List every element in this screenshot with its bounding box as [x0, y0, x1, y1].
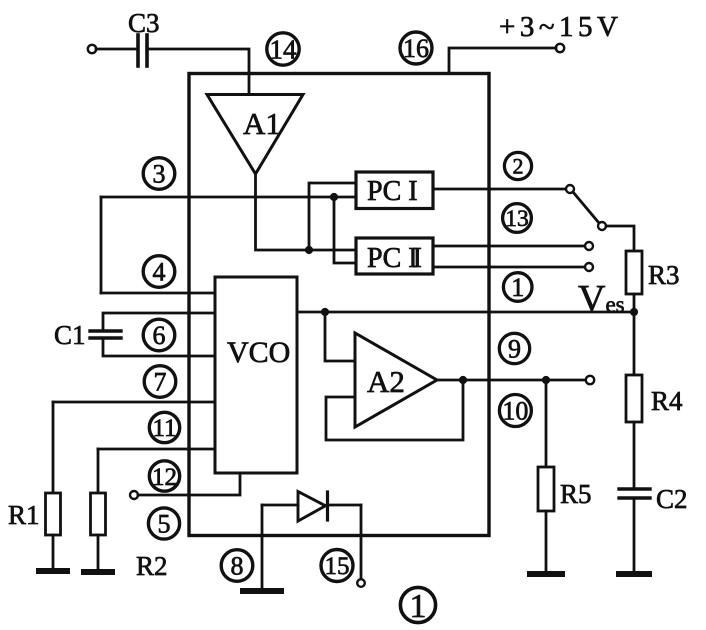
ground at R5 [530, 571, 562, 577]
wire down to R1 [52, 402, 55, 493]
wire pin 4 [101, 292, 215, 295]
pin label 15 [321, 550, 353, 582]
svg-text:9: 9 [508, 335, 521, 364]
wire diode anode [262, 504, 298, 507]
pin label 10 [499, 395, 531, 427]
switch contact a [566, 185, 574, 193]
wire R5 to ground [545, 511, 548, 574]
svg-text:3: 3 [153, 160, 166, 189]
wire A2 output [437, 379, 586, 382]
svg-text:5: 5 [158, 510, 171, 539]
svg-text:11: 11 [152, 415, 176, 442]
wire pin 7 [53, 401, 215, 404]
wire A1 output down [256, 174, 357, 250]
wire branch to PC II lower input [334, 197, 356, 263]
pin label 2 [504, 152, 531, 179]
pin label 5 [148, 508, 179, 539]
svg-text:7: 7 [154, 368, 167, 397]
junction at A1 output branch [305, 246, 313, 254]
supply terminal +3~15V [556, 44, 564, 52]
pin label 13 [503, 204, 532, 233]
wire C1 bottom leg [103, 338, 215, 356]
svg-text:PC I: PC I [367, 176, 418, 207]
svg-text:13: 13 [505, 206, 529, 232]
wire A2 feedback loop [326, 380, 463, 440]
svg-text:8: 8 [231, 552, 244, 581]
pin label 9 [499, 333, 529, 363]
wire C3 to pin14 corner [147, 49, 249, 94]
wire switch to R3 [606, 226, 634, 251]
wire PC II output b pin 13 [433, 266, 585, 269]
resistor R1 [46, 493, 61, 535]
wire pin 15 leg [360, 505, 363, 580]
junction VCO out [321, 308, 329, 316]
IC outline [189, 74, 489, 536]
wire pin 3 [101, 196, 356, 199]
resistor R2 [91, 493, 106, 535]
svg-text:PC II: PC II [367, 243, 422, 274]
figure label 1 [400, 587, 435, 622]
svg-text:Ves: Ves [578, 278, 625, 320]
svg-text:R5: R5 [560, 479, 592, 509]
junction pin3 branch [330, 193, 338, 201]
ground at C2 [619, 571, 649, 577]
capacitor C3 [136, 35, 140, 66]
svg-text:15: 15 [325, 553, 350, 580]
capacitor C2 [619, 487, 650, 490]
wire pin 8 leg [261, 505, 264, 588]
pin label 4 [143, 256, 175, 288]
svg-text:VCO: VCO [227, 336, 290, 369]
wire to A2 upper input [325, 312, 355, 361]
svg-text:1: 1 [410, 588, 427, 625]
svg-text:A2: A2 [367, 364, 405, 399]
wire PC II output a pin 13 [433, 245, 585, 248]
svg-text:12: 12 [152, 464, 177, 491]
wire supply to pin16 [449, 48, 556, 73]
pin label 7 [144, 366, 176, 398]
wire node to R4 [633, 312, 636, 375]
pin label 6 [143, 319, 175, 351]
svg-text:6: 6 [153, 321, 166, 350]
svg-text:C1: C1 [54, 320, 86, 350]
pin label 8 [221, 550, 253, 582]
op-amp A1 [207, 95, 303, 175]
switch arm [573, 192, 599, 223]
wire diode cathode [327, 504, 361, 507]
wire branch to PC I upper input [309, 183, 356, 250]
wire left rail pin3 to pin4 [100, 197, 103, 293]
wire R1 to ground [52, 535, 55, 571]
block PC II [356, 238, 433, 274]
wire PC I output pin 2 [433, 188, 566, 191]
svg-text:16: 16 [403, 34, 429, 63]
resistor R4 [626, 375, 642, 422]
svg-text:A1: A1 [243, 106, 281, 141]
svg-text:C2: C2 [656, 484, 688, 514]
switch contact b [598, 222, 606, 230]
pin 12 terminal [130, 491, 138, 499]
wire R3 to Ves node [633, 294, 636, 312]
wire VCO output / pin 1 net Ves [297, 311, 634, 314]
terminal 13b [585, 263, 593, 271]
svg-text:R2: R2 [136, 551, 168, 581]
svg-text:4: 4 [153, 258, 166, 287]
svg-text:R1: R1 [8, 500, 40, 530]
pin label 11 [149, 412, 179, 442]
svg-text:10: 10 [502, 397, 528, 426]
pin label 16 [400, 32, 432, 64]
pin label 1 [503, 273, 532, 302]
junction to R5 [542, 376, 550, 384]
wire R4 to C2 [633, 422, 636, 489]
pin label 3 [143, 158, 175, 190]
op-amp A2 [355, 333, 437, 427]
resistor R5 [538, 467, 554, 511]
svg-text:1: 1 [511, 273, 524, 302]
wire C1 top leg [103, 313, 215, 331]
pin label 14 [267, 33, 299, 65]
output terminal pin10 [586, 376, 594, 384]
input terminal at C3 [88, 45, 96, 53]
ground at R2 [84, 569, 112, 575]
pin label 12 [149, 461, 179, 491]
svg-text:R4: R4 [651, 386, 683, 416]
wire R2 to ground [97, 535, 100, 572]
svg-text:14: 14 [270, 35, 298, 65]
svg-text:R3: R3 [648, 260, 680, 290]
wire terminal to C3 [96, 48, 138, 51]
wire pin 12 [138, 473, 240, 495]
pin 15 terminal [357, 579, 365, 587]
junction Ves node [630, 308, 638, 316]
block VCO [215, 277, 297, 473]
wire down to R2 [97, 449, 100, 493]
capacitor C1 [90, 329, 121, 332]
diode D1 [298, 492, 326, 522]
wire down to R5 [545, 380, 548, 467]
ground at pin 8 [243, 588, 281, 594]
block PC I [356, 172, 433, 209]
junction A2 feedback [459, 376, 467, 384]
svg-text:+3~15V: +3~15V [499, 11, 623, 43]
wire pin 11 [98, 448, 215, 451]
ground at R1 [39, 568, 67, 574]
resistor R3 [626, 251, 642, 294]
terminal 13a [585, 242, 593, 250]
svg-text:2: 2 [513, 154, 524, 179]
svg-text:C3: C3 [128, 8, 160, 38]
wire C2 to ground [633, 498, 636, 574]
